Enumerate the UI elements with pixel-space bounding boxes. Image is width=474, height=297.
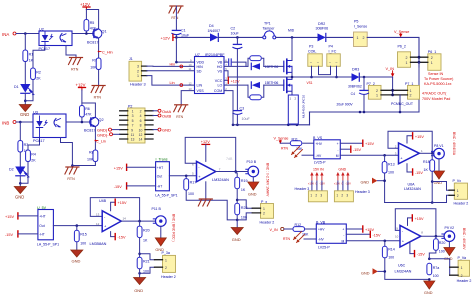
svg-text:GND: GND bbox=[248, 192, 257, 196]
node emitter ground junction bbox=[71, 164, 74, 167]
svg-text:COM: COM bbox=[214, 89, 222, 93]
optocoupler U3 PC817 bbox=[33, 111, 66, 144]
wire jog to P_Va pins bbox=[429, 259, 449, 275]
node U6A output junction bbox=[431, 152, 434, 155]
wire R3 to D2 bbox=[19, 153, 21, 167]
svg-text:MLR4100-JRC10: MLR4100-JRC10 bbox=[302, 94, 306, 118]
wire +12V to Q1 collector bbox=[86, 10, 98, 29]
svg-text:BNC : 4V/400A: BNC : 4V/400A bbox=[452, 132, 456, 156]
svg-text:C_Hin: C_Hin bbox=[102, 51, 113, 55]
svg-text:+15V: +15V bbox=[334, 181, 340, 185]
svg-text:Lin: Lin bbox=[170, 81, 175, 85]
svg-text:GND: GND bbox=[20, 112, 29, 117]
wire Q2 emitter bbox=[94, 127, 96, 150]
power -15V (U6C) bbox=[410, 242, 425, 257]
svg-text:+HV: +HV bbox=[318, 228, 325, 232]
wire U4B output to BNC P11 bbox=[121, 220, 155, 222]
svg-text:D4: D4 bbox=[209, 24, 214, 28]
svg-text:GND: GND bbox=[361, 271, 370, 275]
wire network to Q4 gate bbox=[264, 84, 284, 86]
node divider junction 1 bbox=[138, 253, 141, 256]
node D1 cathode junction bbox=[24, 100, 27, 103]
node R7b top junction bbox=[428, 258, 431, 261]
node U5A output junction bbox=[234, 170, 237, 173]
capacitor C3 bbox=[233, 106, 251, 125]
svg-text:BC817: BC817 bbox=[87, 41, 99, 45]
wire R2 to node bbox=[25, 80, 33, 101]
svg-text:Q1: Q1 bbox=[102, 30, 107, 34]
node Q1 base bbox=[85, 32, 88, 35]
resistor R16 bbox=[434, 236, 446, 253]
BNC P11 bbox=[152, 207, 167, 226]
resistor R5 bbox=[84, 20, 97, 32]
wire R15 to GND bbox=[76, 242, 78, 250]
diode DR3 bbox=[348, 68, 362, 89]
svg-text:PCMBC_OUT: PCMBC_OUT bbox=[391, 102, 414, 106]
svg-text:Tamper: Tamper bbox=[263, 26, 276, 30]
svg-text:1: 1 bbox=[461, 266, 463, 270]
header P_3x bbox=[252, 200, 274, 224]
svg-text:3: 3 bbox=[132, 114, 134, 118]
node INA junction bbox=[24, 32, 27, 35]
wire opto U2 pin2 to R2 bbox=[33, 46, 45, 69]
svg-text:R18: R18 bbox=[423, 160, 430, 164]
wire VS to mid rail bbox=[224, 71, 308, 77]
svg-text:+15V: +15V bbox=[308, 181, 314, 185]
svg-text:C2: C2 bbox=[231, 27, 236, 31]
diode DR2 bbox=[316, 22, 329, 42]
svg-text:INB: INB bbox=[2, 121, 9, 126]
svg-text:R21: R21 bbox=[143, 260, 150, 264]
power +15V (U6C) bbox=[408, 215, 425, 226]
resistor R2 bbox=[31, 68, 42, 81]
svg-text:R11: R11 bbox=[292, 137, 298, 141]
power -15V (U6A) bbox=[407, 164, 423, 175]
svg-text:12: 12 bbox=[139, 133, 143, 137]
node D2 cathode junction bbox=[19, 182, 22, 185]
wire P4 pin2 to rail bbox=[336, 66, 338, 77]
svg-text:+15V: +15V bbox=[118, 201, 127, 205]
wire R7 to ground bbox=[98, 70, 100, 86]
node +12V junction bbox=[175, 36, 178, 39]
wire main rail to D4 bbox=[176, 36, 210, 38]
port INA bbox=[2, 32, 16, 37]
svg-text:Hin: Hin bbox=[170, 62, 176, 66]
node M junction (LV25-2) bbox=[384, 240, 387, 243]
IC U7 body bbox=[195, 57, 225, 94]
resistor R23 bbox=[235, 203, 248, 219]
svg-text:+15V: +15V bbox=[5, 215, 14, 219]
wire V-sense column down bbox=[418, 62, 420, 112]
transistor Q1 BC817 bbox=[87, 29, 107, 45]
power +12V arrow (main rail) bbox=[161, 34, 177, 40]
svg-text:GND: GND bbox=[134, 288, 143, 293]
svg-text:GND: GND bbox=[72, 258, 81, 263]
wire gnd reference to R7a bbox=[385, 202, 433, 204]
node header P_Vx junctions bbox=[431, 180, 434, 183]
IC U7 pin names bbox=[197, 61, 223, 94]
wire VSS to ground bbox=[181, 91, 194, 105]
wires group1 to header bbox=[312, 181, 322, 191]
svg-text:R7a: R7a bbox=[433, 266, 440, 270]
node INB junction bbox=[19, 121, 22, 124]
svg-text:R19: R19 bbox=[241, 179, 248, 183]
svg-text:10uF: 10uF bbox=[231, 31, 240, 35]
capacitor C2 bbox=[231, 27, 242, 111]
svg-text:+15V: +15V bbox=[415, 135, 424, 139]
resistor R14 bbox=[382, 241, 394, 260]
wire P3 pin2 to P4 pin1 bbox=[319, 66, 331, 74]
op-amp U4B feedback wire bbox=[90, 198, 139, 222]
svg-text:R7: R7 bbox=[92, 59, 97, 63]
svg-text:R14: R14 bbox=[388, 247, 395, 251]
svg-text:2: 2 bbox=[315, 193, 317, 197]
node C4 bottom junction bbox=[363, 111, 366, 114]
ground slash (U5A V-) bbox=[198, 182, 212, 206]
svg-text:R20: R20 bbox=[143, 228, 150, 232]
net label V_Sense (top) bbox=[394, 30, 409, 37]
svg-text:P10 B: P10 B bbox=[247, 160, 257, 164]
svg-text:2: 2 bbox=[363, 36, 365, 40]
svg-text:TP1: TP1 bbox=[264, 22, 271, 26]
svg-text:R15: R15 bbox=[80, 232, 87, 236]
wire P3 pin1 to rail bbox=[311, 66, 313, 77]
power +15V (LV25-2) bbox=[346, 226, 374, 232]
op-amp U6C feedback wire bbox=[395, 209, 436, 236]
svg-text:Header 3: Header 3 bbox=[355, 190, 370, 194]
svg-text:2: 2 bbox=[140, 110, 142, 114]
svg-text:13: 13 bbox=[131, 138, 135, 142]
transducer LA55 #1 bbox=[37, 206, 59, 247]
svg-text:+HT: +HT bbox=[157, 166, 163, 170]
svg-text:-HT: -HT bbox=[39, 233, 45, 237]
LED D1 bbox=[14, 84, 34, 96]
svg-text:1: 1 bbox=[165, 259, 167, 263]
node divider junction 2 bbox=[138, 272, 141, 275]
port RTN chevrons (LV25-2) bbox=[283, 232, 305, 243]
svg-text:OutB: OutB bbox=[162, 114, 171, 119]
svg-text:P6_2: P6_2 bbox=[398, 45, 406, 49]
wire rail to DR3 bbox=[308, 76, 352, 78]
svg-text:LV25-P: LV25-P bbox=[314, 161, 326, 165]
svg-text:100: 100 bbox=[388, 256, 394, 260]
resistor R18 bbox=[423, 153, 435, 172]
net label C_Hin bbox=[98, 51, 113, 55]
wire D4 to C2 node bbox=[218, 36, 262, 38]
svg-text:COIL: COIL bbox=[308, 49, 316, 53]
svg-text:-HV: -HV bbox=[318, 238, 324, 242]
gate network high: resistor loop bbox=[248, 56, 264, 67]
header H3 group1 box bbox=[308, 191, 327, 202]
svg-text:30BF062: 30BF062 bbox=[348, 85, 362, 89]
resistor R11 bbox=[290, 137, 303, 150]
svg-text:10K: 10K bbox=[90, 66, 97, 70]
wire R8 to ground junction bbox=[72, 162, 95, 166]
svg-text:Out: Out bbox=[39, 224, 44, 228]
ground slash RTN (Q1 emitter) bbox=[91, 86, 105, 100]
node Q2 base bbox=[81, 121, 84, 124]
wire R12 to LV25-2 bbox=[306, 228, 317, 230]
header H3 group1 label bbox=[295, 168, 325, 192]
svg-text:47K: 47K bbox=[85, 113, 92, 117]
svg-text:Q2: Q2 bbox=[99, 118, 104, 122]
ground GND2 bbox=[14, 187, 26, 200]
wire R13 to ground wire bbox=[384, 174, 386, 203]
power -15V (LA55-2) bbox=[114, 183, 156, 189]
resistor R7b bbox=[427, 263, 439, 278]
wire U6C output to BNC P9 bbox=[421, 235, 444, 237]
wire opto U3 pin2 to R4 bbox=[28, 138, 40, 151]
svg-text:+12V: +12V bbox=[161, 35, 171, 40]
svg-text:1: 1 bbox=[263, 207, 265, 211]
svg-text:1: 1 bbox=[457, 189, 459, 193]
svg-text:100: 100 bbox=[433, 274, 439, 278]
svg-text:15V IN: 15V IN bbox=[313, 168, 324, 172]
svg-text:1: 1 bbox=[132, 110, 134, 114]
header P_Va (bottom right) bbox=[450, 256, 472, 283]
svg-text:+12V: +12V bbox=[201, 140, 210, 144]
svg-text:VB: VB bbox=[218, 61, 223, 65]
connector P4 I_FC bbox=[327, 45, 341, 67]
wire R1 top bbox=[24, 34, 26, 51]
wire R1 to D1 bbox=[24, 62, 26, 84]
svg-text:2: 2 bbox=[263, 212, 265, 216]
node burden junction 2 bbox=[185, 175, 188, 178]
svg-text:30BF06: 30BF06 bbox=[316, 27, 329, 31]
svg-text:VDD: VDD bbox=[197, 61, 205, 65]
diode D5 bbox=[251, 63, 278, 69]
svg-text:U6C: U6C bbox=[398, 263, 406, 267]
wire INB to opto U3 bbox=[16, 121, 33, 123]
wire V_IN down to P7 rows bbox=[392, 77, 394, 95]
resistor R20 bbox=[137, 221, 149, 242]
wire +12V node to R6 bbox=[81, 103, 83, 106]
svg-text:6: 6 bbox=[140, 119, 142, 123]
svg-text:SD: SD bbox=[197, 69, 202, 73]
svg-text:Header 2: Header 2 bbox=[161, 275, 176, 279]
shunt sensor box bbox=[288, 95, 298, 125]
node MID junction bbox=[288, 28, 295, 38]
svg-text:M: M bbox=[336, 154, 339, 158]
power +15V (LV25-1) bbox=[340, 140, 374, 146]
wire COM to gnd rail bbox=[224, 91, 233, 125]
svg-text:GND: GND bbox=[424, 291, 433, 295]
wire -HV (LV25-2) bbox=[304, 238, 316, 240]
svg-text:VCC: VCC bbox=[215, 79, 223, 83]
svg-text:2K: 2K bbox=[36, 77, 41, 81]
svg-text:20uF 900V: 20uF 900V bbox=[337, 102, 354, 106]
net label GND (left row6) bbox=[97, 132, 120, 137]
svg-text:C4: C4 bbox=[351, 92, 355, 96]
svg-text:VSS: VSS bbox=[197, 89, 205, 93]
svg-text:P_Vx: P_Vx bbox=[453, 179, 462, 183]
ground slash RTN (block B) bbox=[65, 167, 79, 181]
svg-text:100: 100 bbox=[80, 241, 86, 245]
wire D2 to GND bbox=[19, 176, 21, 187]
power GND arrow (BNC P10) bbox=[248, 177, 259, 197]
ground GND (burden) bbox=[71, 250, 83, 263]
svg-text:5: 5 bbox=[132, 119, 134, 123]
svg-text:-15V: -15V bbox=[373, 233, 381, 237]
wire +12V to Q2 collector bbox=[82, 90, 96, 117]
svg-text:-15V: -15V bbox=[114, 185, 122, 189]
svg-text:Sense IN: Sense IN bbox=[428, 72, 444, 76]
svg-text:1N4007: 1N4007 bbox=[208, 29, 221, 33]
svg-text:U4B: U4B bbox=[99, 199, 107, 203]
svg-text:2: 2 bbox=[457, 194, 459, 198]
wire J1 pin1 to LIN bbox=[147, 76, 195, 86]
svg-text:+: + bbox=[342, 228, 344, 232]
wire ground rail left (y124.8) bbox=[233, 124, 310, 126]
svg-text:R6: R6 bbox=[85, 107, 90, 111]
op-amp U4B bbox=[90, 199, 127, 246]
svg-text:LA_55-P_SP1: LA_55-P_SP1 bbox=[37, 242, 59, 246]
svg-text:47KADC OUT(: 47KADC OUT( bbox=[422, 92, 447, 96]
port INB bbox=[2, 121, 16, 126]
wire DR2 to P5 bbox=[326, 36, 354, 38]
svg-text:C1: C1 bbox=[181, 29, 186, 33]
net label C_Lin bbox=[95, 140, 106, 144]
ground slash (VSS) bbox=[174, 105, 188, 119]
wire fuse to MID node bbox=[276, 36, 318, 38]
svg-text:BC817: BC817 bbox=[84, 129, 96, 133]
svg-text:2: 2 bbox=[137, 69, 139, 73]
svg-text:LV25-P: LV25-P bbox=[318, 246, 330, 250]
svg-text:1K: 1K bbox=[143, 238, 148, 242]
wire C1 to +12V node bbox=[175, 35, 177, 38]
resistor R15 burden bbox=[74, 226, 86, 246]
node U4B output junction bbox=[138, 220, 141, 223]
wire ground rail step bbox=[309, 112, 311, 125]
svg-text:100: 100 bbox=[388, 170, 394, 174]
svg-text:RTN: RTN bbox=[94, 96, 102, 100]
power GND right-arrow (U6C ref) bbox=[361, 268, 385, 275]
svg-text:9: 9 bbox=[131, 128, 133, 132]
header J1 (Header 3) bbox=[129, 57, 146, 86]
svg-text:1K: 1K bbox=[241, 188, 246, 192]
svg-text:2: 2 bbox=[406, 56, 408, 60]
svg-text:1: 1 bbox=[410, 89, 412, 93]
LED D2 bbox=[9, 167, 29, 179]
wire V_IN to R12 bbox=[284, 228, 293, 230]
port RTN chevrons (LV25-1) bbox=[281, 147, 303, 158]
wire HO to gate network bbox=[224, 65, 248, 67]
resistor R12 bbox=[293, 223, 309, 236]
IC U7 pin numbers bbox=[189, 58, 228, 91]
wire DR3 to V_IN corner bbox=[359, 76, 392, 78]
wire opto U3 pin4 to ground bbox=[61, 138, 73, 166]
svg-text:R8: R8 bbox=[89, 151, 94, 155]
svg-text:+HT: +HT bbox=[39, 215, 45, 219]
svg-text:R5: R5 bbox=[90, 21, 95, 25]
wire U6A output to BNC P8 bbox=[419, 152, 433, 154]
net label OutB bbox=[153, 114, 171, 119]
wire network to Q3 gate bbox=[264, 65, 284, 67]
resistor R3 bbox=[18, 141, 29, 154]
wire R14 down to gnd ref bbox=[385, 258, 430, 279]
svg-text:2: 2 bbox=[461, 274, 463, 278]
transistor Q2 BC817 bbox=[84, 117, 104, 132]
header J4 pin stubs bbox=[120, 111, 153, 139]
svg-text:-HT: -HT bbox=[157, 185, 163, 189]
svg-text:R4: R4 bbox=[31, 153, 36, 157]
op-amp U6A bbox=[395, 143, 423, 191]
svg-text:LIN: LIN bbox=[197, 84, 203, 88]
connector P3 COIL bbox=[308, 45, 323, 67]
svg-text:KA-PS-5000-1xx: KA-PS-5000-1xx bbox=[424, 82, 452, 86]
svg-text:P_3a: P_3a bbox=[162, 251, 170, 255]
wire jog to P_3a pin2 bbox=[140, 267, 155, 273]
svg-text:10: 10 bbox=[139, 128, 143, 132]
svg-text:7dB: 7dB bbox=[226, 157, 233, 161]
svg-text:Out: Out bbox=[157, 174, 162, 178]
power +15V (U4B) bbox=[111, 199, 127, 211]
wire R21 to GND bbox=[139, 269, 141, 277]
svg-text:1: 1 bbox=[336, 193, 338, 197]
svg-text:10K: 10K bbox=[87, 158, 94, 162]
ground GND (U4B divider) bbox=[134, 278, 146, 293]
wire opto U2 out to Q1 base bbox=[72, 33, 94, 35]
svg-text:10: 10 bbox=[395, 235, 399, 239]
svg-text:Header 3: Header 3 bbox=[130, 82, 146, 86]
node C2 junction bbox=[236, 36, 239, 39]
svg-text:+12V: +12V bbox=[80, 2, 90, 7]
wire jog to P_Vx pin1 bbox=[432, 182, 449, 191]
power +15V (LA55-1) bbox=[5, 213, 38, 219]
ground slash (top C1) bbox=[169, 6, 183, 20]
svg-text:-15V: -15V bbox=[415, 171, 423, 175]
svg-text:+12V: +12V bbox=[76, 83, 86, 88]
power arrows group2 bbox=[334, 172, 351, 185]
svg-text:C3: C3 bbox=[240, 106, 245, 110]
wire jog to P_3a pin1 bbox=[140, 254, 155, 260]
svg-text:P8 V1: P8 V1 bbox=[434, 144, 444, 148]
transducer U9 LV25-P bbox=[316, 220, 346, 249]
BNC P10 bbox=[246, 160, 259, 177]
wire Q1 emitter bbox=[98, 38, 100, 58]
capacitor C4 bbox=[337, 77, 369, 112]
power +12V (U5A) bbox=[201, 140, 210, 161]
wire R6 to base node bbox=[81, 118, 83, 123]
svg-text:47K: 47K bbox=[90, 27, 97, 31]
svg-text:RTN: RTN bbox=[71, 68, 79, 72]
diode D4 1N4007 bbox=[208, 24, 221, 41]
transducer LA55 #2 bbox=[155, 158, 177, 198]
wire opto U2 pin4 to ground bbox=[66, 46, 76, 58]
power -15V (LV25-1) bbox=[340, 146, 361, 152]
header P_Vx (mid) bbox=[449, 179, 468, 205]
op-amp U5A bbox=[192, 161, 229, 182]
node P_3x junctions bbox=[236, 199, 239, 202]
power -15V (U4B) bbox=[111, 232, 126, 240]
node R14 gnd junction bbox=[384, 270, 387, 273]
svg-text:P11 B: P11 B bbox=[152, 207, 162, 211]
wire slash to C1 bbox=[175, 6, 177, 30]
wire VB with bootstrap cap C5 bbox=[224, 59, 246, 67]
svg-text:100: 100 bbox=[188, 192, 194, 196]
wire jog to P_Vx pin2 bbox=[432, 195, 449, 202]
wire R18 down bbox=[431, 172, 433, 203]
connector P7_1 bbox=[405, 82, 420, 99]
svg-text:D1: D1 bbox=[14, 85, 19, 89]
net label Lin bbox=[170, 81, 183, 86]
svg-text:+15V: +15V bbox=[415, 217, 424, 221]
svg-text:700V Mosfet Pad: 700V Mosfet Pad bbox=[422, 97, 450, 101]
svg-text:1: 1 bbox=[357, 36, 359, 40]
svg-text:-HV: -HV bbox=[316, 154, 322, 158]
svg-text:V_IN: V_IN bbox=[270, 228, 279, 232]
svg-text:2: 2 bbox=[376, 89, 378, 93]
